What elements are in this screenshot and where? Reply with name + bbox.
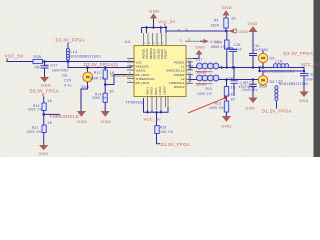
resistor R13: [209, 98, 236, 113]
IC top pin names (rotated): [142, 48, 168, 59]
svg-text:D9: D9: [270, 56, 275, 60]
designator U4: [125, 39, 131, 44]
svg-text:VCC_5V: VCC_5V: [301, 62, 320, 67]
inductor L17: [196, 58, 219, 75]
ground port (above C16): [248, 21, 258, 32]
wire threshold feedback to IC: [105, 75, 134, 85]
ground under R14: [101, 111, 112, 124]
net label VCC_5V (left): [5, 54, 24, 59]
inductor L18: [273, 59, 288, 67]
svg-text:GND: GND: [299, 99, 309, 103]
wire R17 to ground: [43, 133, 45, 146]
wire top pin header: [142, 26, 168, 33]
junction W2/R10: [221, 66, 228, 80]
ground port B (arrow right, at IC pin 25): [200, 39, 220, 44]
wire GND to R9: [225, 15, 227, 18]
ground port (above R9): [222, 5, 232, 16]
svg-text:BLM18BB221SN1: BLM18BB221SN1: [279, 82, 309, 86]
wire B (secondary rail y=67.5): [68, 62, 134, 68]
svg-text:100K 1%: 100K 1%: [209, 106, 224, 110]
svg-text:1K: 1K: [47, 99, 52, 103]
net label VCC_5V (bottom): [144, 117, 162, 122]
dark window edge right: [314, 0, 320, 157]
svg-text:EN3B7: EN3B7: [164, 49, 168, 59]
svg-text:GND: GND: [248, 21, 258, 26]
IC left pin names: [136, 60, 156, 85]
capacitor C15: [227, 43, 242, 69]
resistor R17: [27, 121, 53, 134]
wire label to L14: [67, 43, 69, 49]
wire long top rail y=31: [166, 31, 232, 33]
pin numbers (tiny): [129, 28, 192, 84]
svg-text:100K 1%: 100K 1%: [27, 130, 42, 134]
svg-text:C16: C16: [253, 44, 260, 48]
net label THRESHOLD: [50, 114, 80, 119]
resistor R30: [211, 31, 229, 69]
resistor R16: [28, 99, 53, 112]
wire R16 to junction: [43, 111, 45, 126]
svg-text:D1.2V_FPGA: D1.2V_FPGA: [262, 108, 292, 113]
svg-text:GND: GND: [239, 29, 249, 34]
svg-text:D3.3V_FPGA: D3.3V_FPGA: [30, 89, 60, 94]
power label D3.3V_FPGA (top of L14): [56, 38, 86, 43]
ground under C18: [299, 92, 309, 103]
wire THRESHOLD stub: [44, 113, 60, 115]
labels D6 / C29: [63, 74, 72, 88]
inductor L19: [196, 75, 219, 86]
LED D7: [82, 68, 93, 90]
svg-text:TPS65032: TPS65032: [126, 101, 145, 105]
svg-text:GND: GND: [149, 9, 159, 14]
svg-text:1K: 1K: [231, 86, 236, 90]
net label D3.3V_FPGA (top right): [284, 51, 314, 56]
wire VCC_5V to R35: [7, 59, 33, 62]
svg-text:VCC_5V: VCC_5V: [158, 19, 175, 24]
ground port (top, above IC): [149, 9, 159, 19]
svg-text:100K 1%: 100K 1%: [197, 92, 212, 96]
resistor R10: [197, 80, 236, 97]
svg-text:GND: GND: [222, 124, 232, 129]
svg-text:1K: 1K: [230, 98, 235, 102]
junction LED D7: [86, 66, 89, 69]
wire R18 down: [157, 134, 161, 144]
svg-text:10nF/25V: 10nF/25V: [242, 88, 258, 92]
svg-text:C15: C15: [234, 43, 241, 47]
wire R14 to ground: [104, 102, 106, 111]
svg-text:DCDC2: DCDC2: [174, 85, 185, 89]
svg-text:4.7u: 4.7u: [64, 84, 72, 88]
capacitor C18: [300, 73, 320, 92]
svg-text:VCC_5V: VCC_5V: [5, 54, 24, 59]
svg-text:GND: GND: [222, 5, 232, 10]
svg-text:R18: R18: [160, 126, 167, 130]
svg-text:300R 1%: 300R 1%: [90, 77, 105, 81]
svg-text:GND: GND: [77, 119, 87, 124]
grid background: [0, 0, 320, 157]
svg-text:VCC_5V: VCC_5V: [144, 117, 162, 122]
wire probe line (red): [188, 98, 225, 113]
inductor L20 (vertical): [275, 86, 278, 109]
net label VCC_5V (right): [301, 62, 320, 67]
junction R12: [104, 66, 107, 69]
IC top pin stubs: [144, 33, 167, 46]
svg-text:VINDCDC1.2: VINDCDC1.2: [166, 68, 185, 72]
svg-text:R9: R9: [214, 19, 219, 23]
ground under R13: [222, 116, 232, 129]
svg-text:GND: GND: [196, 45, 206, 49]
IC bottom pin stubs: [148, 97, 169, 111]
svg-text:10nF/25V: 10nF/25V: [52, 69, 69, 73]
wire A (main 3.3V rail y=61.5): [43, 61, 135, 63]
junction at C27 tap: [43, 60, 46, 63]
wire R13 to ground: [226, 112, 228, 116]
svg-text:VLDO1: VLDO1: [136, 68, 146, 72]
node THRESHOLD junction: [42, 113, 45, 116]
svg-text:D1.8V_FPGA: D1.8V_FPGA: [161, 142, 191, 147]
svg-text:THRESHOLD: THRESHOLD: [50, 114, 80, 119]
svg-text:L18: L18: [276, 59, 282, 63]
IC bottom pin names (rotated): [146, 86, 167, 95]
capacitor C16: [249, 32, 269, 69]
capacitor C17: [242, 78, 258, 97]
net label D3.3V_FPGA(2): [84, 62, 119, 67]
svg-text:GND: GND: [101, 119, 111, 124]
svg-text:L17: L17: [196, 58, 203, 62]
svg-text:BLM18BB221SN1: BLM18BB221SN1: [264, 69, 295, 73]
svg-text:D3.3V_FPGA: D3.3V_FPGA: [284, 51, 314, 56]
wire W1 (DCDC1 rail y=67.5): [190, 62, 304, 70]
svg-text:LOW2: LOW2: [162, 86, 166, 95]
resistor R9: [211, 17, 237, 29]
svg-text:680K 1%: 680K 1%: [211, 45, 226, 49]
wire W2 (DCDC2 rail y=79.5): [190, 75, 260, 83]
wire GND to top pins: [153, 18, 155, 27]
ground under C27: [40, 77, 51, 88]
label BLM18BB221SN1 (L18): [264, 69, 295, 73]
wire to R16: [43, 97, 45, 104]
svg-text:C17: C17: [244, 81, 251, 85]
capacitor C27: [41, 62, 70, 78]
svg-text:1K: 1K: [231, 17, 236, 21]
svg-text:D3.3V_FPGA: D3.3V_FPGA: [56, 38, 86, 43]
svg-text:C27: C27: [51, 64, 58, 68]
svg-text:BLM18BB221SN1: BLM18BB221SN1: [71, 55, 102, 59]
resistor R12: [90, 68, 115, 81]
svg-text:1K: 1K: [47, 121, 52, 125]
svg-text:5mA: 5mA: [82, 85, 90, 89]
ground port C (up arrow to pin): [193, 45, 205, 58]
svg-text:C18: C18: [308, 73, 315, 77]
wire R9 to rail: [225, 28, 227, 32]
IC right pin stubs: [185, 41, 200, 83]
svg-text:150R: 150R: [211, 24, 220, 28]
wire bottom pin bus: [144, 98, 169, 114]
inductor L20 labels: [276, 80, 309, 86]
ground under C17: [246, 98, 258, 111]
svg-text:10uH: 10uH: [196, 71, 206, 75]
junction L14/rail: [67, 60, 70, 63]
svg-text:R13: R13: [215, 101, 222, 105]
capacitor C11: [229, 66, 257, 96]
wire to R18: [156, 112, 158, 125]
power label D3.3V_FPGA (above R16): [30, 89, 60, 97]
IC right pin names: [166, 60, 185, 89]
svg-text:R35: R35: [34, 55, 42, 59]
LED D8: [258, 71, 274, 89]
svg-text:5mA: 5mA: [260, 85, 268, 89]
net label THRESHOLD (at IC pin): [110, 74, 134, 78]
svg-text:D3.3V_FPGA(2): D3.3V_FPGA(2): [84, 62, 119, 67]
svg-text:GND: GND: [41, 83, 51, 88]
svg-text:R12: R12: [94, 71, 101, 75]
svg-text:10nF/25V: 10nF/25V: [305, 77, 320, 81]
ground under D7: [77, 111, 87, 124]
svg-text:10K 1%: 10K 1%: [161, 130, 174, 134]
svg-text:200K 1%: 200K 1%: [92, 96, 107, 100]
svg-text:1K: 1K: [229, 77, 234, 81]
svg-text:10nF/25V: 10nF/25V: [253, 48, 269, 52]
wire D7 to ground: [81, 82, 88, 111]
wire L14 bottom to rail: [67, 60, 69, 62]
node divider midpoint (red junction): [224, 96, 227, 101]
svg-text:C29: C29: [64, 79, 71, 83]
resistor R14: [92, 90, 114, 103]
svg-text:U4: U4: [125, 39, 131, 44]
svg-text:GND: GND: [39, 151, 49, 156]
svg-text:L14: L14: [71, 50, 78, 54]
svg-text:10uH: 10uH: [196, 83, 206, 87]
svg-text:100K 1%: 100K 1%: [28, 108, 43, 112]
wire W2b (y=71 to VCC cap): [258, 66, 304, 72]
svg-text:D6: D6: [63, 74, 68, 78]
net label D1.2V_FPGA: [262, 108, 292, 113]
svg-text:1K: 1K: [109, 90, 114, 94]
wire VCC_5V right: [303, 67, 305, 74]
ground port A (right end of top rail): [229, 29, 249, 34]
LED D9: [258, 50, 274, 68]
IC left pin stubs: [127, 59, 134, 83]
svg-text:R30: R30: [215, 41, 222, 45]
svg-text:1K: 1K: [229, 92, 234, 96]
svg-text:FB_LDO2: FB_LDO2: [136, 81, 150, 85]
resistor R18: [155, 126, 173, 135]
svg-text:GND: GND: [246, 107, 256, 111]
svg-text:R10: R10: [206, 87, 213, 91]
inductor L14 (vertical ferrite bead): [66, 48, 101, 60]
part number TPS65032: [126, 101, 145, 105]
IC U4 body (TPS65032 PMIC): [134, 46, 186, 97]
ground under R17: [39, 145, 49, 156]
svg-text:0R: 0R: [35, 66, 40, 70]
node R12/R14 junction: [104, 79, 107, 93]
resistor R35: [33, 55, 49, 70]
svg-text:D8: D8: [270, 80, 275, 84]
net label D1.8V_FPGA: [161, 142, 191, 147]
net label VCC_5V (top): [158, 19, 175, 26]
